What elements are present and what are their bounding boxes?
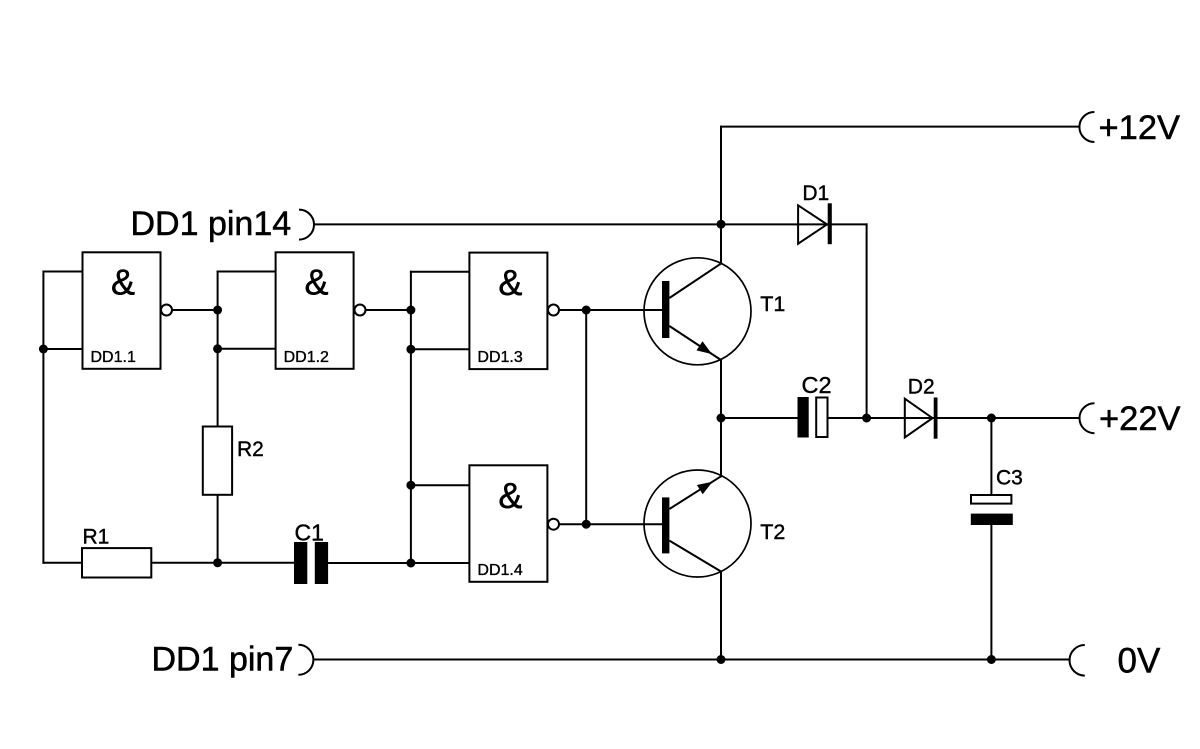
wire DD1.2 output <box>366 309 411 311</box>
wire R2 bottom lead <box>217 495 219 563</box>
junction 0V / T2 collector <box>717 655 726 664</box>
svg-text:DD1.4: DD1.4 <box>477 562 522 579</box>
wire DD1.1 bottom input <box>43 348 82 350</box>
wire DD1.1 output <box>172 309 218 311</box>
svg-text:C1: C1 <box>295 520 324 546</box>
NAND gate DD1.2 <box>276 252 366 368</box>
junction 0V / C3 bottom <box>987 655 996 664</box>
junction pin14 rail / T1 collector <box>717 220 726 229</box>
wire DD1.1 top input feedback <box>43 272 82 563</box>
junction emitters / C2 node <box>717 414 726 423</box>
svg-text:T2: T2 <box>760 520 785 544</box>
wire DD1.4 top input <box>411 484 470 486</box>
wire T2 emitter segment <box>720 418 722 476</box>
junction D1 branch / C2-D2 wire <box>862 414 871 423</box>
junction node A at DD1.1 output <box>213 306 222 315</box>
wire node B vertical (DD1.3 / DD1.4 inputs) <box>410 272 412 563</box>
wire left loop to R1 <box>43 562 82 564</box>
wire mid node to C2 <box>721 417 798 419</box>
svg-text:R2: R2 <box>237 438 264 461</box>
svg-text:DD1 pin7: DD1 pin7 <box>152 641 294 679</box>
junction +22V / C3 top <box>987 414 996 423</box>
wire 0V rail <box>314 659 1069 661</box>
svg-text:&: & <box>498 262 522 303</box>
wire DD1.2 top input <box>218 271 276 273</box>
wire T1 emitter to mid node <box>720 360 722 418</box>
wire T1 collector segment <box>720 224 722 263</box>
connector DD1 pin14 <box>299 210 314 240</box>
wire DD1.3 bottom input <box>411 348 470 350</box>
svg-text:DD1.1: DD1.1 <box>91 349 136 366</box>
transistor T2 (NPN) <box>644 470 751 577</box>
connector +22V <box>1080 403 1095 433</box>
svg-text:DD1.3: DD1.3 <box>477 349 522 366</box>
wire node A vertical (DD1.2 inputs / R2) <box>217 272 219 427</box>
NAND gate DD1.3 <box>469 253 559 370</box>
capacitor C3 (polarized) <box>971 495 1013 525</box>
wire node C vertical (gate outputs tie) <box>585 310 587 524</box>
wire C1 to node B <box>328 562 411 564</box>
diode D1 <box>798 203 832 244</box>
connector 0V <box>1070 645 1085 676</box>
junction node C at DD1.4 output <box>582 520 591 529</box>
wire DD1.4 output to T2 base <box>559 523 662 525</box>
wire R1 to C1 <box>151 562 294 564</box>
junction node B at DD1.2 output <box>406 306 415 315</box>
svg-text:R1: R1 <box>83 525 110 548</box>
transistor T1 (NPN) <box>644 258 751 365</box>
wire D1 cathode branch down to C2 output node <box>866 224 868 418</box>
svg-text:DD1 pin14: DD1 pin14 <box>131 205 292 243</box>
wire C3 top lead <box>990 418 992 495</box>
svg-text:D1: D1 <box>802 182 829 205</box>
svg-text:C3: C3 <box>996 466 1023 489</box>
wire C3 bottom lead <box>990 525 992 660</box>
junction node A at R2 / C1 <box>213 558 222 567</box>
junction node C at DD1.3 output <box>582 306 591 315</box>
wire T2 collector down to 0V rail <box>720 572 722 660</box>
diode D2 <box>905 398 938 439</box>
NAND gate DD1.4 <box>469 465 559 582</box>
svg-text:+22V: +22V <box>1099 400 1181 438</box>
junction node B at DD1.4 upper input <box>406 481 415 490</box>
resistor R2 <box>203 427 232 495</box>
svg-text:+12V: +12V <box>1099 109 1181 147</box>
wire DD1.2 bottom input <box>218 348 276 350</box>
wire DD1.4 bottom input <box>411 562 470 564</box>
wire T1 collector to +12V rail <box>720 127 722 225</box>
connector DD1 pin7 <box>298 645 313 675</box>
svg-text:D2: D2 <box>908 376 935 399</box>
connector +12V <box>1079 112 1094 142</box>
svg-text:&: & <box>111 262 135 303</box>
wire DD1.3 output to T1 base <box>559 309 662 311</box>
NAND gate DD1.1 <box>83 252 173 368</box>
svg-text:&: & <box>304 262 328 303</box>
junction node A at DD1.2 lower input <box>213 344 222 353</box>
svg-text:T1: T1 <box>760 292 785 316</box>
svg-text:0V: 0V <box>1118 642 1161 681</box>
svg-text:DD1.2: DD1.2 <box>284 349 329 366</box>
junction node B at DD1.3 lower input <box>406 345 415 354</box>
resistor R1 <box>82 548 151 577</box>
svg-text:C2: C2 <box>802 372 832 398</box>
junction DD1.1 lower input node <box>39 345 48 354</box>
svg-text:&: & <box>498 475 522 516</box>
wire DD1 pin14 rail <box>314 223 867 225</box>
wire +12V rail <box>721 126 1079 128</box>
wire C2 to D2 to +22V <box>828 417 1079 419</box>
capacitor C2 (polarized) <box>798 397 828 438</box>
junction node B at DD1.4 lower input / C1 <box>406 559 415 568</box>
wire DD1.3 top input <box>411 271 470 273</box>
capacitor C1 <box>294 542 328 584</box>
